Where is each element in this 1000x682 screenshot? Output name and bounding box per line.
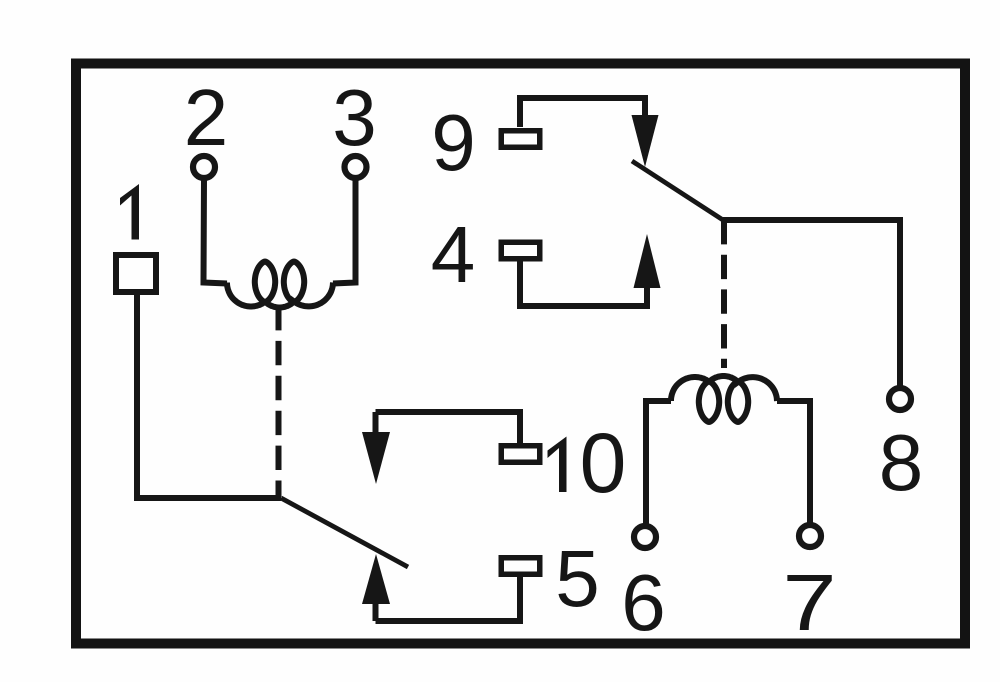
arrow down NC contact top [632,115,659,167]
switch lever SW2 [632,161,723,220]
relay outline frame [76,64,965,644]
wire pin3 to coil [333,179,356,284]
wire arrow-up to pin 5 [376,576,521,621]
label 10 [548,437,567,493]
pin 1 square terminal [116,255,156,292]
svg-text:2: 2 [184,73,229,162]
switch lever SW1 [281,498,408,567]
dashed link SW2 to L2 [721,220,727,368]
arrow down NC contact bottom [373,412,379,433]
wire L2 right to pin 7 [777,401,810,524]
wire pin2 to coil [204,179,228,284]
svg-text:9: 9 [431,98,476,187]
svg-text:8: 8 [879,418,924,507]
pin 6 circle terminal [634,526,656,548]
wire pin1 down [137,295,281,498]
coil L1 [227,262,333,308]
pin 4 contact pad [501,242,540,259]
dashed link L1 to SW1 [276,306,282,497]
pin 2 circle terminal [193,156,215,178]
wire pin4 to arrow [520,260,647,306]
svg-text:4: 4 [431,210,476,299]
wire common to pin 8 [723,220,900,387]
pin 3 circle terminal [345,156,367,178]
pin 10 contact pad [501,446,540,463]
svg-text:7: 7 [782,557,836,647]
pin 8 circle terminal [889,388,911,410]
svg-text:3: 3 [332,73,377,162]
wire arrow-down to pin 10 [376,412,521,443]
pin 7 circle terminal [799,525,821,547]
svg-text:0: 0 [580,416,627,510]
arrow up NO contact top [634,234,661,288]
label 1 [120,184,139,240]
coil L2 [671,376,777,422]
svg-text:5: 5 [555,534,600,623]
pin 9 contact pad [501,131,540,148]
wire L2 left to pin 6 [646,401,671,525]
wire pin9 to arrow [520,98,645,127]
pin 5 contact pad [501,558,540,575]
arrow up NO contact bottom [362,554,390,604]
svg-text:6: 6 [621,558,666,647]
